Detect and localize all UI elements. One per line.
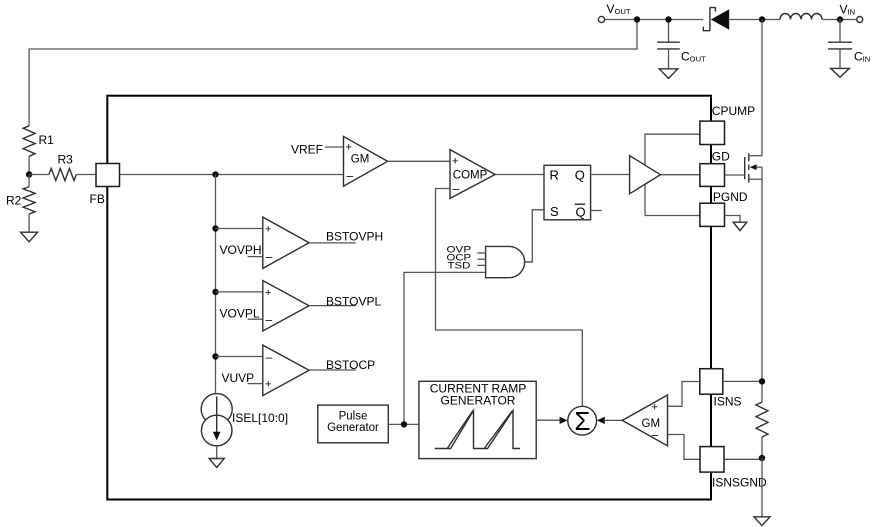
resistor R3 — [49, 169, 76, 181]
wire AND output — [525, 261, 533, 263]
node divider — [26, 171, 32, 177]
svg-text:CPUMP: CPUMP — [712, 104, 755, 118]
ground CIN — [831, 68, 850, 77]
wire switch node down to MOSFET drain — [761, 20, 763, 156]
wire VREF to GM plus — [325, 146, 344, 148]
wire FB to GM minus input — [120, 174, 344, 176]
svg-text:ISEL[10:0]: ISEL[10:0] — [232, 411, 288, 425]
comparator A3 UVP — [263, 345, 309, 396]
summer sigma — [568, 406, 597, 436]
wire R3 to FB pin — [76, 174, 96, 176]
svg-text:PGND: PGND — [713, 190, 748, 204]
svg-text:GENERATOR: GENERATOR — [441, 393, 516, 407]
resistor RSNS — [756, 402, 768, 437]
node switch — [759, 16, 765, 22]
pin GD — [700, 164, 725, 187]
wire current source to ground — [216, 446, 218, 459]
svg-text:Σ: Σ — [574, 406, 590, 436]
wire sense node to ground — [761, 458, 763, 517]
svg-text:FB: FB — [90, 192, 105, 206]
node pulse tap — [401, 421, 407, 427]
wire latch Qbar stub — [591, 210, 602, 212]
wire sense resistor bottom — [761, 437, 763, 458]
wire comp2 minus stub — [248, 318, 263, 320]
svg-text:+: + — [652, 402, 658, 414]
svg-text:BSTOVPH: BSTOVPH — [326, 230, 383, 244]
current source ISEL — [201, 394, 288, 446]
svg-text:–: – — [266, 249, 273, 263]
svg-text:GD: GD — [712, 150, 730, 164]
wire comp1 out BSTOVPH — [309, 242, 356, 244]
wire comp1 minus stub — [248, 256, 263, 258]
svg-text:TSD: TSD — [448, 261, 471, 271]
wire feeder vertical — [215, 175, 217, 394]
pin FB — [96, 164, 120, 187]
svg-text:VREF: VREF — [291, 143, 323, 157]
ground COUT — [659, 69, 678, 79]
wire COMP minus down to summer — [436, 189, 583, 407]
wire diode to switch node — [729, 19, 780, 21]
svg-text:+: + — [265, 379, 271, 391]
ground ISNSGND — [754, 517, 770, 526]
svg-text:S: S — [550, 204, 559, 219]
latch U1 RS — [544, 165, 591, 220]
wire driver rail CPUMP — [645, 134, 700, 215]
capacitor COUT — [657, 20, 706, 69]
svg-text:BSTOCP: BSTOCP — [326, 358, 375, 372]
wire ISNS to sense node — [723, 380, 762, 382]
svg-text:+: + — [346, 142, 352, 154]
wire AND out to latch S — [525, 210, 544, 262]
svg-text:+: + — [265, 287, 271, 299]
node sense bottom — [759, 455, 765, 461]
driver buffer — [630, 156, 661, 194]
block CURRENT RAMP GENERATOR — [419, 381, 536, 458]
pin CPUMP — [700, 121, 725, 144]
wire GM2 out to summer — [604, 419, 622, 421]
wire comp1 plus — [216, 228, 263, 230]
wire comp3 minus — [216, 356, 263, 358]
svg-text:Q: Q — [575, 168, 585, 183]
wire R2 to ground — [28, 214, 30, 232]
ground ISEL — [209, 459, 224, 468]
svg-text:ISNSGND: ISNSGND — [712, 476, 767, 490]
wire comp2 plus — [216, 291, 263, 293]
svg-text:ISNS: ISNS — [714, 395, 742, 409]
svg-text:R1: R1 — [39, 133, 55, 147]
wire GM out to COMP plus — [388, 160, 450, 162]
comparator A1 OVPH — [263, 217, 309, 268]
svg-text:COMP: COMP — [453, 170, 488, 182]
pin ISNS — [700, 369, 723, 395]
pin ISNSGND — [700, 447, 724, 473]
node VIN tap — [837, 16, 843, 22]
svg-text:BSTOVPL: BSTOVPL — [326, 294, 381, 308]
wire COMP out to latch R — [495, 174, 544, 176]
svg-text:VOVPL: VOVPL — [220, 307, 260, 321]
wire ramp gen to summer — [536, 419, 561, 421]
wire node to R2 — [28, 175, 30, 187]
svg-text:–: – — [453, 182, 460, 196]
wire node to R3 — [29, 174, 49, 176]
svg-text:Q: Q — [576, 205, 586, 220]
comparator A2 OVPL — [263, 281, 309, 332]
node comp3 tap — [212, 353, 218, 359]
wire MOSFET source down to ISNS node — [761, 179, 763, 402]
wire comp3 out BSTOCP — [309, 369, 356, 371]
node FB feeder tap — [212, 171, 218, 177]
resistor R1 — [23, 126, 35, 156]
svg-text:VUVP: VUVP — [222, 371, 255, 385]
terminal VOUT — [598, 16, 604, 22]
ground R2 — [21, 232, 38, 242]
pin PGND — [700, 203, 725, 226]
svg-text:R2: R2 — [6, 194, 22, 208]
svg-text:–: – — [347, 169, 354, 183]
wire GM2 plus to ISNS — [668, 382, 700, 407]
wire comp3 plus stub — [248, 383, 263, 385]
svg-text:–: – — [266, 350, 273, 364]
svg-text:+: + — [265, 224, 271, 236]
wire driver rail PGND — [645, 215, 700, 217]
node sense top — [759, 378, 765, 384]
wire pulse gen to ramp gen — [388, 423, 419, 425]
diode D1 schottky — [703, 7, 729, 31]
wire comp2 out BSTOVPL — [309, 305, 356, 307]
wire driver out to GD — [660, 174, 700, 176]
svg-text:Generator: Generator — [327, 422, 379, 434]
arrow into summer right — [597, 417, 605, 424]
transistor Q1 MOSFET — [725, 153, 763, 182]
svg-text:GM: GM — [642, 418, 661, 430]
ground PGND — [733, 222, 747, 230]
svg-text:R: R — [550, 168, 559, 183]
wire pulse node up to AND input — [404, 272, 486, 424]
node comp1 tap — [212, 225, 218, 231]
arrow into summer left — [560, 417, 568, 424]
wire PGND to ground — [725, 216, 741, 223]
svg-text:+: + — [452, 156, 458, 168]
wire GM2 minus to ISNSGND — [668, 435, 701, 460]
main IC box — [107, 96, 711, 500]
op-amp GM error amp — [344, 136, 388, 186]
capacitor CIN — [828, 20, 870, 69]
node comp2 tap — [212, 289, 218, 295]
op-amp GM2 current sense — [622, 395, 667, 446]
resistor R2 — [23, 187, 35, 214]
node COUT tap — [665, 16, 671, 22]
gate U2 AND — [447, 244, 525, 277]
svg-text:R3: R3 — [58, 153, 74, 167]
svg-text:GM: GM — [351, 154, 370, 166]
wire latch Q to driver — [591, 174, 630, 176]
comparator COMP — [450, 150, 495, 199]
node VOUT tap — [634, 16, 640, 22]
wire ISNSGND to sense node — [724, 458, 762, 460]
block Pulse Generator — [318, 405, 389, 443]
svg-text:–: – — [266, 312, 273, 326]
terminal VIN — [857, 17, 863, 23]
inductor L1 — [780, 14, 822, 20]
svg-text:VOVPH: VOVPH — [220, 243, 262, 257]
wire feedback from VOUT node down-left to R1 — [29, 20, 637, 126]
wire top rail VOUT to diode — [605, 19, 704, 21]
svg-text:Pulse: Pulse — [339, 410, 368, 422]
wire inductor to VIN — [822, 19, 857, 21]
wire R1 to node — [28, 156, 30, 174]
